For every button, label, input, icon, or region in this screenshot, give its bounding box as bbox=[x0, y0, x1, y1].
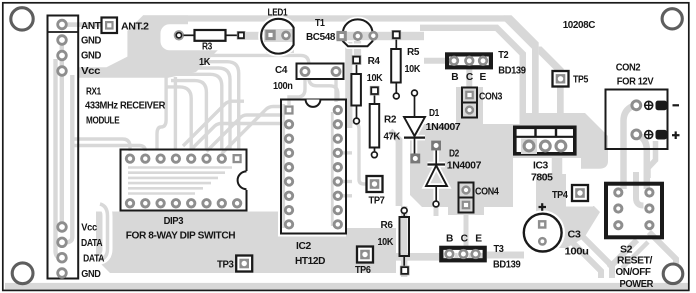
label TP7 bbox=[369, 195, 386, 206]
wire top-right outer elbow to IC3 bbox=[500, 15, 539, 126]
svg-text:E: E bbox=[475, 234, 482, 245]
svg-text:IC3: IC3 bbox=[533, 161, 549, 172]
svg-text:C: C bbox=[461, 234, 469, 245]
module pin GND2 bbox=[58, 51, 67, 60]
LED LED1 bbox=[261, 19, 293, 54]
svg-text:POWER: POWER bbox=[620, 279, 654, 290]
label plus bbox=[672, 131, 680, 139]
label LED1 bbox=[268, 7, 288, 18]
label FOR 12V bbox=[617, 77, 654, 88]
wire bottom bus band bbox=[5, 283, 688, 289]
label Vcc bbox=[81, 66, 101, 77]
resistor R4 bbox=[351, 55, 361, 124]
wire ANT pad to ANT.2 bbox=[66, 22, 104, 27]
label GND bottom bbox=[81, 269, 100, 280]
wire inside S2 hook bbox=[636, 172, 644, 206]
copper pour TP4/C3 patch bbox=[536, 174, 600, 248]
label minus bbox=[673, 104, 680, 106]
svg-text:D2: D2 bbox=[449, 149, 460, 160]
module pin DATA2 bbox=[58, 253, 67, 262]
transistor T2 bbox=[447, 54, 491, 67]
svg-text:T1: T1 bbox=[315, 18, 325, 29]
wire CON3 feed from T2 bbox=[466, 66, 472, 90]
wire CON2 right stub bbox=[648, 141, 656, 178]
IC2 pads left column bbox=[284, 105, 293, 228]
svg-text:CON3: CON3 bbox=[479, 91, 503, 102]
svg-text:FOR 12V: FOR 12V bbox=[617, 77, 654, 88]
wire TP6 to T3 horizontal bbox=[348, 253, 485, 261]
label Vcc bottom bbox=[81, 222, 97, 233]
wire module to plane channel bbox=[98, 204, 108, 260]
wire blob down to DIP3 pad3 bbox=[157, 77, 166, 150]
svg-text:TP4: TP4 bbox=[552, 190, 568, 201]
test point TP5 bbox=[553, 71, 569, 87]
white clearance around R3 bbox=[161, 24, 269, 50]
svg-text:TP7: TP7 bbox=[369, 195, 386, 206]
label 100u bbox=[565, 247, 589, 258]
svg-text:ON/OFF: ON/OFF bbox=[616, 267, 651, 278]
mounting hole top-right bbox=[662, 9, 682, 29]
switch S2 bbox=[606, 184, 662, 238]
label TP3 bbox=[217, 260, 234, 271]
label DATA1 bbox=[81, 238, 103, 249]
svg-text:BD139: BD139 bbox=[493, 260, 521, 271]
label ANT.2 bbox=[121, 22, 149, 33]
label 10K R6 bbox=[378, 237, 394, 248]
transistor T1 bbox=[337, 19, 377, 46]
svg-text:GND: GND bbox=[81, 36, 101, 47]
terminal plus-screw bottom bbox=[645, 130, 667, 140]
svg-text:GND: GND bbox=[81, 269, 100, 280]
test point TP4 bbox=[572, 185, 588, 201]
label T1 bbox=[315, 18, 325, 29]
white clearance around TP4 bbox=[566, 180, 593, 207]
svg-text:Vcc: Vcc bbox=[81, 222, 97, 233]
module pin GND bbox=[58, 36, 67, 45]
resistor R5 bbox=[391, 30, 401, 99]
module pin DATA1 bbox=[58, 238, 67, 247]
svg-text:E: E bbox=[480, 72, 487, 83]
svg-text:7805: 7805 bbox=[531, 173, 553, 184]
svg-text:D1: D1 bbox=[429, 108, 440, 119]
wire D2 cathode stub bbox=[434, 206, 439, 216]
svg-text:CON4: CON4 bbox=[475, 187, 499, 198]
connector CON3 bbox=[462, 88, 477, 118]
module pin Vcc bottom bbox=[58, 223, 67, 232]
label BD139 T2 bbox=[498, 65, 526, 76]
svg-text:10K: 10K bbox=[367, 73, 383, 84]
svg-text:TP6: TP6 bbox=[355, 265, 371, 276]
wire module vertical 1 bbox=[60, 44, 64, 223]
svg-text:R5: R5 bbox=[407, 47, 420, 58]
label DATA2 bbox=[83, 254, 105, 265]
copper pour upper-left bbox=[79, 15, 188, 77]
label C4 bbox=[275, 65, 288, 76]
wire fan to DIP3 pad7 bbox=[177, 74, 222, 150]
DIP switch socket DIP3 bbox=[121, 150, 249, 211]
svg-text:S2: S2 bbox=[620, 244, 633, 255]
diode D1 bbox=[404, 90, 425, 163]
label 10K R4 bbox=[367, 73, 383, 84]
test point TP7 bbox=[367, 176, 383, 192]
label RESET/ bbox=[617, 256, 653, 267]
wire fan to DIP3 (2) bbox=[175, 68, 230, 150]
label T3 bbox=[494, 244, 505, 255]
label B C E T2 bbox=[451, 72, 486, 83]
label IC3 bbox=[533, 161, 549, 172]
label 1N4007 D2 bbox=[447, 160, 482, 171]
svg-text:100n: 100n bbox=[273, 81, 293, 92]
label CON3 bbox=[479, 91, 503, 102]
label HT12D bbox=[295, 256, 325, 267]
wire IC2 right to TP7 bbox=[352, 122, 367, 184]
label R2 bbox=[384, 115, 397, 126]
wire module to DIP3 pad1 bbox=[72, 139, 130, 151]
label ON/OFF bbox=[616, 267, 651, 278]
wire C4 right pad down to IC2 pin18 bbox=[334, 74, 337, 102]
wire C3 to S2 diagonal 2 bbox=[579, 233, 612, 278]
svg-text:C: C bbox=[466, 72, 474, 83]
wire R3 pad to LED1 bbox=[245, 32, 267, 40]
wire S2 bottom-right diagonal bbox=[649, 232, 676, 278]
copper pour CON4 patch bbox=[448, 200, 484, 215]
label GND bbox=[81, 36, 101, 47]
svg-text:C3: C3 bbox=[568, 230, 582, 241]
svg-text:R3: R3 bbox=[202, 42, 213, 53]
label T2 bbox=[498, 50, 509, 61]
label 10208C bbox=[563, 20, 596, 31]
svg-text:ANT.2: ANT.2 bbox=[121, 22, 149, 33]
label TP5 bbox=[573, 75, 589, 86]
svg-text:RESET/: RESET/ bbox=[617, 256, 653, 267]
svg-text:Vcc: Vcc bbox=[81, 66, 101, 77]
diode D2 bbox=[426, 141, 447, 207]
mounting hole bottom-left bbox=[12, 263, 33, 284]
wire module to DIP3 pad2 bbox=[72, 146, 145, 152]
label 1K bbox=[199, 57, 211, 68]
svg-text:10208C: 10208C bbox=[563, 20, 596, 31]
wire C4 left pad to IC2 pin1 bbox=[289, 74, 305, 105]
svg-text:B: B bbox=[451, 72, 458, 83]
label R3 bbox=[202, 42, 213, 53]
label plus C3 bbox=[539, 203, 547, 211]
resistor R2 bbox=[370, 86, 380, 158]
wire elbow to TP5 and plane bbox=[539, 47, 564, 127]
wire module vertical 3 bbox=[66, 75, 72, 242]
label CON4 bbox=[475, 187, 499, 198]
wire IC2 pin stubs right bbox=[338, 153, 352, 196]
label S2 bbox=[620, 244, 633, 255]
svg-text:HT12D: HT12D bbox=[295, 256, 325, 267]
resistor R3 bbox=[175, 30, 246, 41]
wire fan to DIP3 pad5 bbox=[166, 87, 191, 150]
mounting hole top-left bbox=[11, 8, 33, 30]
module pin GND bottom bbox=[58, 269, 67, 278]
mounting hole bottom-right bbox=[663, 264, 683, 284]
label R5 bbox=[407, 47, 420, 58]
label 7805 bbox=[531, 173, 553, 184]
svg-text:1K: 1K bbox=[199, 57, 211, 68]
wire T1/C4 vertical bundle bbox=[345, 42, 352, 128]
white clearance around C3 bbox=[520, 210, 565, 255]
module pin ANT bbox=[58, 20, 67, 29]
wire CON2 to S2 right column bbox=[638, 135, 647, 189]
wire diagonals DIP3 to IC2 bbox=[183, 101, 284, 153]
label BD139 T3 bbox=[493, 260, 521, 271]
label D1 bbox=[429, 108, 440, 119]
wire T3 to C3 bbox=[487, 252, 524, 259]
wire blob down to DIP3 pad4 bbox=[174, 77, 177, 150]
DIP3 pads top row bbox=[126, 154, 241, 163]
svg-text:IC2: IC2 bbox=[296, 241, 312, 252]
svg-text:1N4007: 1N4007 bbox=[426, 122, 461, 133]
test point TP3 bbox=[236, 256, 252, 272]
wire top-right inner elbow bbox=[420, 25, 526, 126]
IC IC2 HT12D bbox=[281, 100, 346, 234]
svg-text:ANT: ANT bbox=[81, 21, 102, 32]
svg-text:C4: C4 bbox=[275, 65, 288, 76]
svg-text:10K: 10K bbox=[378, 237, 394, 248]
label BC548 bbox=[306, 32, 336, 43]
svg-text:DATA: DATA bbox=[83, 254, 105, 265]
RX1 433MHz receiver module outline bbox=[48, 16, 79, 279]
svg-text:TP5: TP5 bbox=[573, 75, 589, 86]
wire IC2 inner right vertical bbox=[331, 112, 334, 226]
copper pour bottom-center plane bbox=[278, 237, 396, 274]
IC2 pads right column bbox=[334, 106, 341, 228]
svg-text:B: B bbox=[446, 234, 453, 245]
label MODULE bbox=[86, 116, 120, 127]
copper pour bottom-left plane bbox=[96, 212, 278, 274]
svg-text:433MHz RECEIVER: 433MHz RECEIVER bbox=[85, 100, 166, 111]
svg-text:100u: 100u bbox=[565, 247, 589, 258]
wire T1 to R5 band bbox=[336, 32, 424, 40]
svg-text:R4: R4 bbox=[368, 56, 381, 67]
label IC2 bbox=[296, 241, 312, 252]
wire DIP3 internal traces bbox=[128, 168, 232, 194]
label GND2 bbox=[81, 51, 101, 62]
wire T1 emitter to R4 bbox=[354, 41, 361, 57]
module pin Vcc bbox=[58, 67, 67, 76]
svg-text:TP3: TP3 bbox=[217, 260, 234, 271]
svg-text:DATA: DATA bbox=[81, 238, 103, 249]
wire S2 to bottom bus diagonal 1 bbox=[609, 240, 637, 268]
svg-text:FOR 8-WAY DIP SWITCH: FOR 8-WAY DIP SWITCH bbox=[126, 231, 236, 242]
wire IC2 inner left vertical bbox=[282, 104, 285, 228]
capacitor C3 bbox=[524, 214, 562, 252]
label C3 bbox=[568, 230, 582, 241]
svg-text:10K: 10K bbox=[405, 64, 421, 75]
copper pour right of IC2 bbox=[346, 228, 396, 273]
pad ANT.2 bbox=[102, 18, 118, 34]
copper pour middle plane bbox=[410, 87, 608, 207]
label 10K R5 bbox=[405, 64, 421, 75]
svg-text:MODULE: MODULE bbox=[86, 116, 120, 127]
DIP3 pads bottom row bbox=[126, 200, 241, 207]
wire into T2 B pad bbox=[424, 58, 450, 64]
connector CON2 bbox=[606, 90, 668, 150]
label TP4 bbox=[552, 190, 568, 201]
label POWER bbox=[620, 279, 654, 290]
wire fan blob to C4/IC2 pin18 bbox=[171, 55, 338, 101]
svg-text:CON2: CON2 bbox=[616, 63, 641, 74]
wire module vertical 2 bbox=[56, 59, 62, 258]
svg-text:R6: R6 bbox=[381, 220, 394, 231]
wire S2 to bottom bus diagonal 2 bbox=[622, 242, 648, 268]
svg-text:BD139: BD139 bbox=[498, 65, 526, 76]
svg-text:RX1: RX1 bbox=[86, 87, 101, 98]
copper pour wedge below 1K bbox=[168, 42, 218, 78]
wire CON2 interior down to S2 left column bbox=[624, 106, 634, 189]
wire IC3 down to C3 positive bbox=[548, 155, 557, 223]
wire C3 to S2 diagonal 1 bbox=[566, 236, 601, 278]
wire CON4 to T3 bbox=[464, 212, 469, 249]
regulator IC3 bbox=[513, 127, 577, 154]
label B C E T3 bbox=[446, 234, 482, 245]
label R4 bbox=[368, 56, 381, 67]
test point TP6 bbox=[357, 247, 373, 263]
svg-text:T2: T2 bbox=[498, 50, 509, 61]
copper pour under LED1 bbox=[266, 22, 294, 53]
wire R6 through-trace bbox=[401, 206, 407, 277]
label DIP3 bbox=[164, 216, 184, 227]
label R6 bbox=[381, 220, 394, 231]
label 1N4007 D1 bbox=[426, 122, 461, 133]
svg-text:T3: T3 bbox=[494, 244, 505, 255]
svg-text:1N4007: 1N4007 bbox=[447, 160, 482, 171]
label CON2 bbox=[616, 63, 641, 74]
label D2 bbox=[449, 149, 460, 160]
terminal plus-screw top bbox=[645, 101, 667, 111]
svg-text:GND: GND bbox=[81, 51, 101, 62]
wire top bus band bbox=[143, 15, 505, 21]
label 433MHz RECEIVER bbox=[85, 100, 166, 111]
svg-text:DIP3: DIP3 bbox=[164, 216, 184, 227]
label ANT bbox=[81, 21, 102, 32]
svg-text:R2: R2 bbox=[384, 115, 397, 126]
wire fan to DIP3 pad6 bbox=[171, 81, 206, 150]
label TP6 bbox=[355, 265, 371, 276]
capacitor C4 bbox=[297, 64, 344, 80]
svg-text:47K: 47K bbox=[384, 132, 401, 143]
wire fan to DIP3 pad8 bbox=[173, 62, 239, 150]
svg-text:LED1: LED1 bbox=[268, 7, 288, 18]
label RX1 bbox=[86, 87, 101, 98]
label 47K bbox=[384, 132, 401, 143]
label FOR 8-WAY DIP SWITCH bbox=[126, 231, 236, 242]
connector CON4 bbox=[459, 183, 474, 213]
resistor R6 bbox=[400, 208, 410, 276]
label 100n bbox=[273, 81, 293, 92]
wire R2 area to R6 vertical bbox=[390, 131, 399, 206]
svg-text:BC548: BC548 bbox=[306, 32, 336, 43]
transistor T3 bbox=[441, 248, 484, 260]
